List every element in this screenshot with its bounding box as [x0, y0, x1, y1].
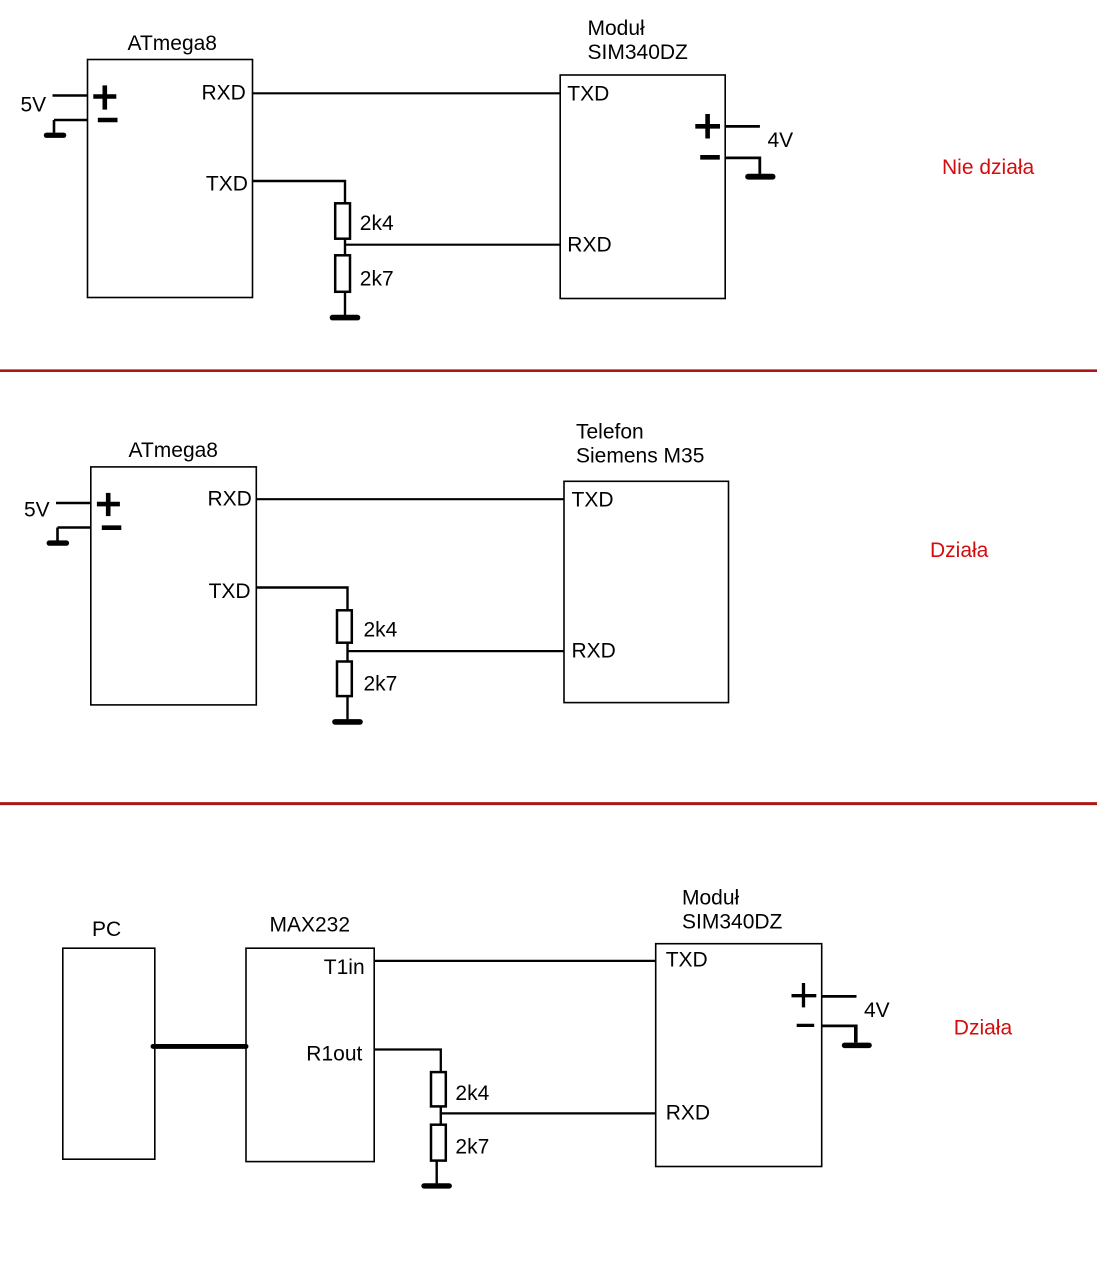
svg-text:2k7: 2k7	[455, 1136, 489, 1159]
battery BT3 minus symbol	[102, 525, 122, 530]
wire 5V plus lead sec2	[56, 502, 91, 505]
svg-text:R1out: R1out	[306, 1042, 362, 1065]
resistor R1 2k4	[335, 203, 350, 238]
IC U2 Modul SIM340DZ box	[560, 75, 725, 299]
ground (4V supply sec1)	[745, 174, 775, 180]
resistor R4 2k7	[337, 662, 352, 697]
wire ground drop sec1 left	[53, 120, 56, 133]
IC U1 ATmega8 box	[88, 60, 253, 298]
IC U3 ATmega8 box	[91, 467, 256, 705]
IC U5 MAX232 box	[246, 948, 374, 1161]
wire 5V minus lead	[54, 119, 88, 122]
wire divider junction vertical	[344, 239, 346, 256]
svg-text:Telefon: Telefon	[576, 421, 644, 444]
ground (divider sec2)	[332, 719, 363, 725]
battery BT2 minus symbol	[700, 155, 720, 160]
svg-text:RXD: RXD	[567, 233, 611, 256]
separator line 2	[0, 802, 1097, 805]
svg-text:ATmega8: ATmega8	[129, 439, 219, 462]
svg-text:Siemens M35: Siemens M35	[576, 444, 704, 467]
ground (5V supply)	[44, 133, 67, 138]
svg-text:2k4: 2k4	[455, 1082, 489, 1105]
IC U6 Modul SIM340DZ box	[656, 944, 822, 1167]
svg-text:TXD: TXD	[666, 949, 708, 972]
ground (divider sec3)	[421, 1183, 452, 1188]
svg-text:2k4: 2k4	[364, 618, 398, 641]
wire PC to MAX232 (thick bus)	[153, 1044, 246, 1049]
svg-text:2k7: 2k7	[364, 672, 398, 695]
svg-text:TXD: TXD	[209, 580, 251, 603]
wire ATmega8 RXD to Telefon TXD	[256, 498, 564, 500]
svg-text:Działa: Działa	[930, 539, 989, 562]
svg-text:RXD: RXD	[208, 488, 252, 511]
wire ground drop divider sec1	[344, 292, 346, 315]
svg-text:RXD: RXD	[666, 1102, 710, 1125]
svg-text:MAX232: MAX232	[270, 914, 351, 937]
node divider tap / wire to Telefon RXD	[347, 650, 565, 652]
resistor R2 2k7	[335, 255, 350, 291]
wire divider junction vertical sec3	[440, 1106, 442, 1124]
wire ATmega8 TXD to divider sec2	[256, 588, 347, 611]
battery BT3 plus symbol	[97, 493, 120, 516]
svg-text:Nie działa: Nie działa	[942, 156, 1035, 179]
wire 4V plus lead	[725, 125, 760, 128]
node divider tap / wire to SIM340DZ RXD	[344, 244, 560, 246]
resistor R3 2k4	[337, 610, 352, 642]
wire 4V plus lead sec3	[822, 995, 857, 998]
separator line 1	[0, 369, 1097, 372]
svg-text:SIM340DZ: SIM340DZ	[588, 41, 689, 64]
wire 4V minus lead to ground	[725, 158, 760, 174]
battery BT4 plus symbol	[792, 983, 817, 1007]
svg-text:2k4: 2k4	[360, 212, 394, 235]
svg-text:TXD: TXD	[572, 488, 614, 511]
wire ground drop sec2 left	[56, 528, 59, 541]
wire 5V plus lead	[53, 94, 89, 97]
wire 4V minus lead to ground sec3	[822, 1025, 856, 1028]
wire ground drop divider sec2	[346, 696, 348, 719]
svg-text:4V: 4V	[768, 129, 794, 152]
ground (5V supply sec2)	[47, 540, 70, 545]
svg-text:TXD: TXD	[567, 82, 609, 105]
svg-text:Moduł: Moduł	[682, 887, 740, 910]
ground (4V supply sec3)	[842, 1043, 872, 1049]
svg-text:4V: 4V	[864, 999, 890, 1022]
svg-text:TXD: TXD	[206, 173, 248, 196]
svg-text:RXD: RXD	[202, 82, 246, 105]
svg-text:5V: 5V	[24, 499, 50, 522]
battery BT1 minus symbol	[98, 118, 118, 123]
wire 5V minus lead sec2	[58, 526, 92, 529]
svg-text:Działa: Działa	[954, 1016, 1013, 1039]
svg-text:SIM340DZ: SIM340DZ	[682, 911, 783, 934]
resistor R6 2k7	[431, 1125, 446, 1161]
svg-text:Moduł: Moduł	[588, 17, 646, 40]
wire MAX232 T1in to SIM340DZ TXD	[374, 960, 656, 962]
node divider tap / wire to SIM340DZ RXD sec3	[440, 1112, 656, 1114]
svg-text:RXD: RXD	[572, 640, 616, 663]
svg-text:5V: 5V	[21, 93, 47, 116]
ground (divider sec1)	[330, 315, 361, 321]
battery BT2 plus symbol	[695, 114, 720, 139]
PC box	[63, 948, 155, 1159]
svg-text:PC: PC	[92, 918, 121, 941]
resistor R5 2k4	[431, 1072, 446, 1106]
svg-text:ATmega8: ATmega8	[128, 32, 218, 55]
IC U4 Telefon Siemens M35 box	[564, 481, 729, 702]
wire ATmega8 TXD to resistor divider	[253, 181, 346, 203]
svg-text:2k7: 2k7	[360, 268, 394, 291]
battery BT1 plus symbol	[93, 85, 116, 109]
wire ground drop divider sec3	[436, 1161, 438, 1184]
svg-text:T1in: T1in	[324, 956, 365, 979]
wire MAX232 R1out to divider sec3	[374, 1050, 441, 1073]
battery BT4 minus symbol	[797, 1024, 815, 1027]
wire divider junction vertical sec2	[346, 643, 348, 662]
wire ATmega8 RXD to SIM340DZ TXD	[253, 92, 561, 94]
